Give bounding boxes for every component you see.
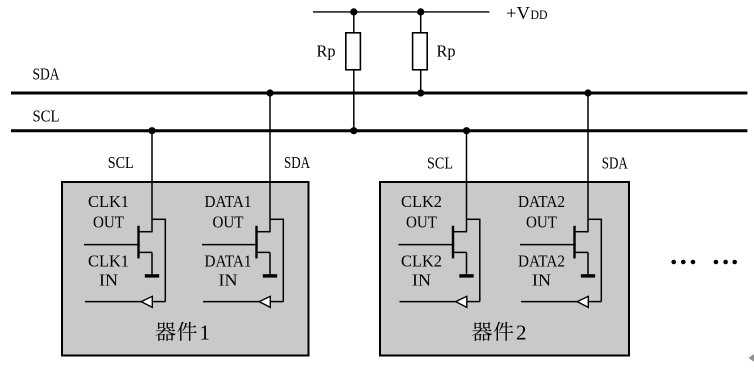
svg-text:DATA1: DATA1 xyxy=(205,252,252,271)
svg-text:+V: +V xyxy=(506,3,530,23)
svg-text:CLK1: CLK1 xyxy=(88,192,129,211)
svg-text:SCL: SCL xyxy=(33,107,60,126)
svg-text:DATA2: DATA2 xyxy=(518,192,565,211)
svg-text:SDA: SDA xyxy=(602,154,629,173)
svg-text:IN: IN xyxy=(219,271,238,290)
svg-text:CLK2: CLK2 xyxy=(401,252,442,271)
svg-text:CLK2: CLK2 xyxy=(401,192,442,211)
svg-text:Rp: Rp xyxy=(317,42,336,61)
svg-text:IN: IN xyxy=(412,271,431,290)
svg-text:IN: IN xyxy=(99,271,118,290)
svg-text:DD: DD xyxy=(531,8,548,22)
svg-text:OUT: OUT xyxy=(93,213,125,232)
svg-text:OUT: OUT xyxy=(526,213,558,232)
svg-text:2: 2 xyxy=(516,320,527,344)
svg-text:Rp: Rp xyxy=(437,42,456,61)
svg-text:CLK1: CLK1 xyxy=(88,252,129,271)
svg-text:1: 1 xyxy=(200,320,211,344)
svg-text:IN: IN xyxy=(532,271,551,290)
svg-text:SDA: SDA xyxy=(33,64,61,83)
svg-text:DATA1: DATA1 xyxy=(205,192,252,211)
svg-text:SCL: SCL xyxy=(427,154,453,173)
svg-text:OUT: OUT xyxy=(213,213,245,232)
svg-text:DATA2: DATA2 xyxy=(518,252,565,271)
svg-text:SDA: SDA xyxy=(284,153,311,172)
svg-text:OUT: OUT xyxy=(406,213,438,232)
svg-text:SCL: SCL xyxy=(108,153,134,172)
